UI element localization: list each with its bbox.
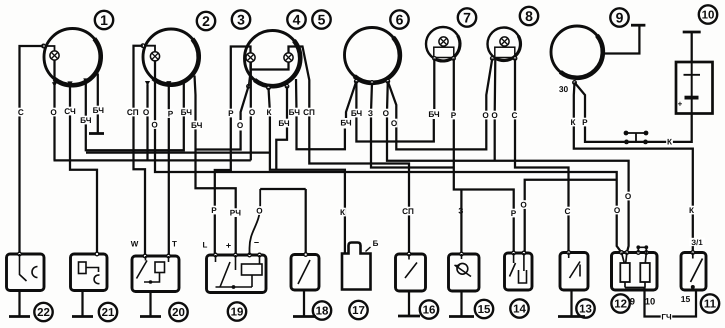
label B horn — [372, 239, 379, 248]
label O low 6 — [391, 119, 398, 128]
badge 4 — [287, 10, 305, 28]
switch 14 — [505, 251, 533, 290]
svg-text:С: С — [565, 207, 571, 216]
badge 5 — [312, 10, 330, 28]
svg-text:СП: СП — [303, 108, 315, 117]
svg-text:12: 12 — [614, 299, 627, 311]
label BCH low unit2 — [191, 121, 203, 130]
lamp unit 1 (parking light) — [44, 29, 101, 86]
wire O of switch 14 — [525, 180, 617, 254]
wire O light8 middle — [494, 58, 497, 160]
wire GCH from fusebox to switch11 — [645, 288, 697, 317]
fuse 10 — [640, 253, 650, 288]
terminals of unit 1 — [52, 78, 89, 87]
badge 12 — [611, 294, 629, 312]
label O 8 mid — [491, 111, 498, 120]
svg-text:17: 17 — [352, 305, 365, 317]
badge 17 — [349, 301, 367, 319]
label O fuse left — [614, 206, 621, 215]
label O box19 — [256, 206, 263, 215]
svg-text:О: О — [50, 108, 57, 117]
bulb in light 8 — [491, 37, 517, 60]
svg-text:О: О — [520, 201, 527, 210]
label T — [171, 239, 178, 248]
label 15 small — [681, 294, 691, 304]
svg-text:О: О — [614, 206, 621, 215]
svg-text:4: 4 — [293, 12, 301, 28]
badge 18 — [313, 301, 331, 319]
svg-text:20: 20 — [172, 307, 185, 319]
svg-text:9: 9 — [616, 10, 624, 26]
label 9 — [630, 295, 635, 306]
svg-text:О: О — [482, 111, 489, 120]
label R 9 — [582, 118, 589, 127]
label R box19 — [211, 206, 218, 215]
switch 13 — [560, 251, 588, 290]
label R box14 — [510, 209, 517, 218]
svg-text:БЧ: БЧ — [340, 119, 352, 128]
label R 345 — [228, 109, 235, 118]
label O 345 — [249, 108, 256, 117]
svg-text:С: С — [18, 108, 24, 117]
svg-text:О: О — [383, 109, 390, 118]
svg-text:10: 10 — [645, 295, 655, 306]
svg-text:5: 5 — [318, 12, 326, 28]
svg-text:19: 19 — [231, 307, 244, 319]
label R unit2 — [167, 109, 174, 118]
wire O unit6 to fuse box (bus B8) — [387, 81, 629, 252]
fuse box 12 — [612, 251, 658, 290]
label BCH 7 — [428, 110, 440, 119]
badge 14 — [510, 299, 528, 317]
flasher relay 19 — [207, 253, 267, 292]
badge 16 — [420, 300, 438, 318]
wire from unit6 left terminal — [346, 81, 356, 118]
svg-text:З/1: З/1 — [691, 238, 703, 247]
svg-text:13: 13 — [579, 304, 592, 316]
wiper 20 internals — [137, 256, 169, 284]
label BCH low left — [80, 116, 92, 125]
svg-text:+: + — [226, 241, 231, 251]
svg-text:Б: Б — [373, 239, 379, 248]
label C 8 — [511, 111, 518, 120]
svg-text:W: W — [131, 239, 139, 248]
svg-text:3: 3 — [237, 12, 245, 28]
svg-text:БЧ: БЧ — [191, 121, 203, 130]
label plus — [225, 241, 232, 251]
wire BCH-low 345 — [276, 86, 287, 170]
svg-text:О: О — [625, 192, 632, 201]
wire Z from unit6 joining R7 — [371, 83, 454, 168]
svg-text:О: О — [491, 111, 498, 120]
fuse 9 — [620, 253, 630, 288]
wire R from unit345 left bulb to relay 19 L — [215, 47, 251, 255]
svg-text:БЧ: БЧ — [428, 110, 440, 119]
svg-text:ГЧ: ГЧ — [661, 312, 672, 321]
label minus — [253, 238, 260, 248]
fuse links bottom — [625, 287, 645, 289]
ground of 20 — [140, 292, 161, 317]
svg-text:2: 2 — [202, 13, 210, 29]
wire R from horn9 to battery — [575, 83, 692, 142]
label R 7 — [450, 111, 457, 120]
badge 21 — [99, 303, 117, 321]
terminals of unit 6 — [355, 80, 390, 85]
svg-text:БЧ: БЧ — [278, 119, 290, 128]
wire K from horn9 to switch 11 — [574, 83, 693, 253]
svg-text:Р: Р — [511, 209, 517, 218]
terminal 30 of device 9 — [558, 81, 577, 94]
bus B2 — [54, 159, 251, 161]
svg-text:1: 1 — [100, 12, 108, 28]
bus B14 O from relay19 — [260, 188, 306, 190]
svg-text:10: 10 — [702, 10, 715, 22]
wire SP from unit2 to wiper W — [134, 46, 146, 256]
svg-text:15: 15 — [681, 294, 691, 304]
badge 9 — [610, 8, 628, 26]
wiper motor 20 — [132, 254, 179, 291]
svg-text:Т: Т — [172, 239, 177, 248]
svg-text:СП: СП — [127, 108, 139, 117]
label O — [50, 108, 57, 117]
label K box11 — [688, 206, 695, 215]
svg-text:СП: СП — [402, 207, 414, 216]
battery 10 — [676, 62, 713, 114]
lamp unit 6 (fog light) — [345, 28, 400, 83]
label C box13 — [564, 207, 571, 216]
label O unit2 — [143, 108, 150, 117]
relay 21 — [71, 252, 108, 290]
wire to switch 18 — [305, 189, 307, 254]
svg-text:8: 8 — [525, 8, 533, 24]
switch 11 — [681, 251, 706, 290]
badge 11 — [701, 294, 719, 312]
svg-text:−: − — [254, 238, 259, 248]
label O low unit2 — [151, 120, 158, 129]
svg-text:Р: Р — [582, 118, 588, 127]
svg-text:+: + — [678, 100, 683, 109]
svg-text:6: 6 — [396, 12, 404, 28]
relay 19 internals — [216, 255, 263, 289]
wire BCH light7 upper — [433, 58, 435, 109]
badge 2 — [197, 12, 215, 30]
right bulb in unit 3-4-5 — [284, 53, 293, 62]
battery ground wire — [683, 32, 701, 62]
badge 7 — [458, 8, 476, 26]
headlamp unit 3-4-5 — [245, 31, 301, 87]
bulb in light 7 — [433, 37, 456, 60]
label BCH low 6 — [340, 118, 352, 127]
label 10 — [645, 295, 655, 306]
label K 9 — [570, 118, 577, 127]
wire SP from unit345 right bulb to switch 16 — [289, 47, 410, 254]
wire SCH from unit1 to relay 21 — [70, 85, 97, 255]
wire O unit345 to bus B2 — [250, 62, 252, 160]
svg-text:О: О — [256, 207, 263, 216]
label BCH — [92, 106, 104, 115]
wire Z branch to switch 15 — [460, 190, 462, 254]
label BCH 6 — [351, 109, 363, 118]
svg-text:14: 14 — [513, 304, 526, 316]
svg-text:БЧ: БЧ — [289, 108, 301, 117]
wire BCH unit6 to light7 (bus B5) — [356, 81, 433, 141]
marker light 7 — [426, 27, 460, 61]
label Z 6 — [367, 109, 374, 118]
svg-text:Р: Р — [211, 206, 217, 215]
wire O unit2 — [146, 84, 148, 160]
badge 1 — [95, 11, 113, 29]
svg-text:О: О — [391, 119, 398, 128]
wire minus S-curve into 19 — [250, 189, 261, 255]
left bulb in unit 3-4-5 — [246, 53, 255, 62]
horn / device 9 — [551, 26, 603, 78]
wire BCH 345 to fog unit6 — [296, 79, 345, 149]
wire O-low from unit2 bulb (bus B13) — [155, 61, 622, 253]
badge 8 — [520, 7, 538, 25]
svg-text:О: О — [151, 121, 158, 130]
svg-text:Р: Р — [228, 109, 234, 118]
jumper over terminals 9-10 — [636, 245, 648, 252]
svg-text:РЧ: РЧ — [230, 209, 241, 218]
svg-text:О: О — [237, 121, 244, 130]
bulb bridge wire in unit 3-4-5 — [251, 62, 289, 69]
svg-text:7: 7 — [463, 10, 471, 26]
wire BCH unit1-unit2 (bus B1) — [86, 81, 184, 151]
svg-text:22: 22 — [37, 307, 50, 319]
svg-text:О: О — [143, 108, 150, 117]
ground of 21 — [72, 290, 93, 317]
terminals of unit 2 — [145, 81, 172, 86]
label O low 345 — [237, 121, 244, 130]
label SP 345 — [303, 108, 315, 117]
svg-text:З: З — [368, 109, 373, 118]
badge 13 — [576, 299, 594, 317]
bulb in unit 1 — [42, 44, 59, 60]
label SCH — [64, 107, 76, 116]
svg-text:БЧ: БЧ — [181, 108, 193, 117]
svg-text:БЧ: БЧ — [80, 116, 92, 125]
label SP — [127, 108, 139, 117]
svg-text:БЧ: БЧ — [351, 109, 363, 118]
ground near unit1 — [89, 132, 104, 135]
label O 6 — [383, 109, 390, 118]
label K box17 — [339, 208, 346, 217]
bus B1b — [86, 151, 270, 153]
antenna/ground stub of device 9 — [603, 25, 646, 53]
switch 16 — [396, 252, 426, 291]
label K 345 — [266, 108, 273, 117]
wire BCH-low unit2 to relay19 plus — [195, 76, 236, 255]
label BCH unit2 — [180, 108, 192, 117]
svg-text:Р: Р — [168, 110, 174, 119]
label BCH 345 — [288, 108, 300, 117]
ground of 18 — [293, 290, 316, 317]
label O 8 left — [482, 111, 489, 120]
badge 10 — [699, 5, 717, 23]
label Z box15 — [458, 206, 465, 215]
svg-text:Р: Р — [451, 111, 457, 120]
wire R from light7 — [454, 58, 514, 253]
label Z/1 — [689, 238, 705, 247]
svg-text:30: 30 — [559, 84, 569, 94]
svg-text:L: L — [203, 240, 208, 249]
badge 20 — [169, 303, 187, 321]
svg-text:О: О — [249, 108, 256, 117]
rheostat 15 — [449, 252, 480, 291]
svg-text:С: С — [512, 111, 518, 120]
label C — [18, 108, 25, 117]
svg-text:18: 18 — [316, 306, 329, 318]
wire R from unit2 to wiper T — [168, 84, 170, 255]
connector plug on battery wire — [624, 131, 649, 145]
ground of 22 — [9, 290, 30, 317]
badge 22 — [34, 303, 52, 321]
wire K from unit345 to horn 17 — [269, 88, 345, 254]
horn 17 — [342, 243, 371, 290]
svg-text:16: 16 — [423, 305, 436, 317]
label K battery — [666, 137, 673, 146]
ground of 13 — [558, 290, 585, 317]
svg-text:21: 21 — [102, 307, 115, 319]
bulb in unit 2 — [141, 44, 160, 61]
terminals of unit 3-4-5 — [247, 70, 289, 90]
label O box14 — [520, 200, 527, 209]
label O fuse right — [625, 192, 632, 201]
wire C from unit1 to switch 22 — [20, 46, 44, 254]
wire C from light8 to switch 13 — [515, 58, 569, 252]
label BCH low 345 — [278, 119, 290, 128]
svg-text:БЧ: БЧ — [93, 106, 105, 115]
label W — [131, 239, 139, 248]
wire O from unit1 bulb to bus — [53, 60, 55, 160]
ground of 16 — [398, 290, 420, 317]
bus B20 to O-low 345 — [195, 131, 241, 150]
label L — [202, 240, 209, 249]
switch 18 — [291, 253, 319, 290]
badge 15 — [475, 300, 493, 318]
svg-text:11: 11 — [704, 299, 717, 311]
marker light 8 — [488, 28, 521, 61]
badge 19 — [228, 302, 246, 320]
badge 3 — [232, 10, 250, 28]
label RCH — [230, 208, 242, 217]
badge 6 — [390, 10, 408, 28]
svg-text:15: 15 — [478, 304, 491, 316]
wire O-low 345 from unit345 — [241, 86, 249, 120]
wire BCH to ground at unit1 — [97, 74, 99, 134]
label SP box16 — [402, 207, 414, 216]
label GCH — [661, 312, 673, 321]
lamp unit 2 — [143, 29, 199, 85]
wire O-low unit6 (bus B7) — [388, 58, 493, 149]
ground of 15 — [449, 291, 474, 317]
switch 22 — [7, 252, 45, 290]
svg-text:СЧ: СЧ — [64, 107, 76, 116]
